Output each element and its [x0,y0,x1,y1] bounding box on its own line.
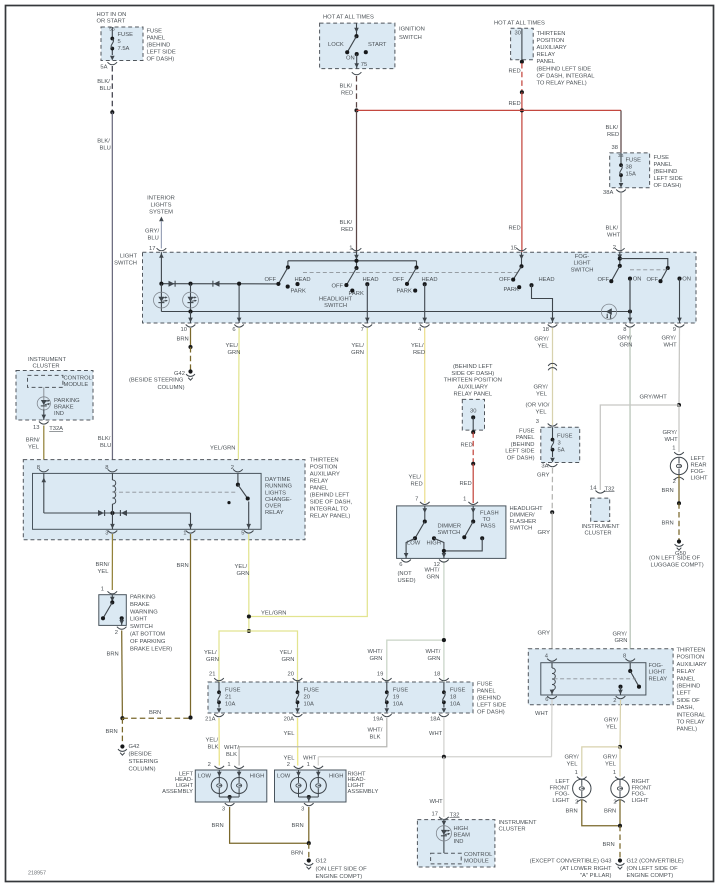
svg-text:PARK: PARK [397,288,412,294]
svg-text:YEL: YEL [284,756,296,762]
svg-text:RED: RED [413,350,425,356]
svg-text:WHT/: WHT/ [368,728,383,734]
svg-text:OFF: OFF [598,277,610,283]
svg-text:HEAD: HEAD [295,277,311,283]
svg-text:GRN: GRN [282,657,295,663]
svg-text:LOW: LOW [198,774,212,780]
svg-text:ON: ON [633,276,642,282]
svg-text:8: 8 [37,465,40,471]
svg-text:WHT: WHT [429,731,443,737]
svg-text:T32A: T32A [49,426,63,432]
svg-text:30: 30 [515,31,521,37]
svg-text:GRY/: GRY/ [534,385,548,391]
svg-text:(AT LOWER RIGHT: (AT LOWER RIGHT [560,866,612,872]
svg-text:BLK/: BLK/ [340,83,353,89]
svg-text:BRAKE: BRAKE [54,404,74,410]
svg-text:21: 21 [209,672,215,678]
svg-text:SWITCH: SWITCH [130,624,153,630]
svg-text:18: 18 [434,672,440,678]
svg-text:BLK/: BLK/ [606,226,619,232]
svg-text:GRY/: GRY/ [603,755,617,761]
svg-text:8: 8 [105,465,108,471]
svg-text:HOT AT ALL TIMES: HOT AT ALL TIMES [494,21,545,27]
svg-text:PANEL): PANEL) [677,727,698,733]
svg-text:GRY/: GRY/ [618,336,632,342]
svg-text:DAYTIME: DAYTIME [265,477,290,483]
svg-text:(BESIDE: (BESIDE [129,752,152,758]
svg-text:6: 6 [232,327,235,333]
svg-text:LEFT SIDE: LEFT SIDE [654,176,683,182]
svg-text:FOG-: FOG- [649,663,664,669]
svg-text:TO RELAY: TO RELAY [677,720,705,726]
svg-text:THIRTEEN: THIRTEEN [537,31,566,37]
svg-text:INTEGRAL TO: INTEGRAL TO [310,507,349,513]
svg-text:19: 19 [377,672,383,678]
svg-text:WHT: WHT [664,343,678,349]
svg-text:SWITCH: SWITCH [399,35,422,41]
svg-text:38: 38 [626,165,632,171]
svg-text:RED: RED [509,101,521,107]
svg-text:(BEHIND: (BEHIND [677,684,701,690]
svg-text:21A: 21A [205,717,215,723]
svg-text:17: 17 [149,246,155,252]
svg-text:INTERIOR: INTERIOR [147,196,175,202]
svg-text:THIRTEEN: THIRTEEN [310,458,339,464]
svg-text:LIGHT: LIGHT [649,670,667,676]
svg-text:LEFT: LEFT [691,456,706,462]
svg-text:15: 15 [511,246,517,252]
svg-text:HEAD: HEAD [539,277,555,283]
svg-text:WHT/: WHT/ [224,745,239,751]
svg-text:5A: 5A [100,64,107,70]
svg-text:RED: RED [461,443,473,449]
svg-text:GRN: GRN [370,656,383,662]
svg-text:BRN/: BRN/ [96,562,110,568]
svg-text:BRN: BRN [662,521,674,527]
svg-text:1: 1 [613,770,616,776]
svg-text:FUSE: FUSE [626,158,642,164]
svg-text:5A: 5A [558,448,565,454]
svg-text:LIGHT: LIGHT [691,476,709,482]
svg-text:BRAKE LEVER): BRAKE LEVER) [130,646,172,652]
svg-text:1: 1 [183,531,186,537]
svg-text:IND: IND [54,411,64,417]
svg-text:SWITCH: SWITCH [324,303,347,309]
svg-text:PARKING: PARKING [130,595,156,601]
svg-text:PANEL: PANEL [477,689,496,695]
svg-text:BLU: BLU [100,145,111,151]
svg-text:LEFT: LEFT [555,779,570,785]
svg-text:POSITION: POSITION [537,38,565,44]
svg-text:LEFT SIDE: LEFT SIDE [505,449,534,455]
svg-text:ASSEMBLY: ASSEMBLY [162,789,193,795]
svg-text:(AT BOTTOM: (AT BOTTOM [130,632,165,638]
svg-text:2: 2 [673,479,676,485]
svg-text:YEL/: YEL/ [226,343,239,349]
svg-text:BRN: BRN [291,850,303,856]
svg-text:3: 3 [222,807,225,813]
svg-text:6: 6 [545,697,548,703]
svg-text:(EXCEPT CONVERTIBLE) G43: (EXCEPT CONVERTIBLE) G43 [530,859,612,865]
svg-text:3: 3 [558,441,561,447]
svg-text:PANEL: PANEL [310,486,329,492]
svg-text:FUSE: FUSE [519,429,535,435]
svg-text:(BEHIND: (BEHIND [147,43,171,49]
svg-text:HOT AT ALL TIMES: HOT AT ALL TIMES [323,15,374,21]
svg-text:TO: TO [483,517,491,523]
svg-text:BLK/: BLK/ [340,220,353,226]
svg-text:WHT/: WHT/ [425,568,440,574]
svg-text:BLK: BLK [370,735,381,741]
svg-text:BLK/: BLK/ [606,125,619,131]
svg-text:YEL/: YEL/ [206,738,219,744]
svg-text:GRY/: GRY/ [565,755,579,761]
svg-text:RELAY: RELAY [537,52,556,58]
svg-text:13: 13 [33,425,39,431]
svg-text:WHT: WHT [665,437,679,443]
svg-text:BLK/: BLK/ [97,79,110,85]
svg-text:3: 3 [536,419,539,425]
svg-text:FUSE: FUSE [557,434,573,440]
svg-text:BRN: BRN [177,563,189,569]
svg-text:12: 12 [434,562,440,568]
svg-text:BRN: BRN [603,842,615,848]
svg-text:OF DASH, INTEGRAL: OF DASH, INTEGRAL [537,74,596,80]
svg-text:OFF: OFF [265,277,277,283]
svg-text:GRY/: GRY/ [145,228,159,234]
svg-text:FRONT: FRONT [632,785,652,791]
svg-text:START: START [368,42,387,48]
svg-text:7.5A: 7.5A [118,46,130,52]
svg-text:HIGH: HIGH [329,774,344,780]
svg-text:OFF: OFF [647,277,659,283]
svg-text:YEL: YEL [567,762,579,768]
svg-text:INSTRUMENT: INSTRUMENT [582,524,620,530]
svg-text:FUSE: FUSE [654,155,670,161]
svg-text:TO RELAY PANEL): TO RELAY PANEL) [537,81,587,87]
svg-text:CLUSTER: CLUSTER [32,364,59,370]
svg-text:20A: 20A [284,717,294,723]
svg-text:30: 30 [470,409,476,415]
svg-text:BRN: BRN [149,710,161,716]
svg-text:(BEHIND: (BEHIND [654,169,678,175]
svg-text:DIMMER: DIMMER [438,523,462,529]
svg-text:10A: 10A [304,702,314,708]
svg-text:CONTROL: CONTROL [464,852,493,858]
svg-text:LIGHTS: LIGHTS [151,203,172,209]
svg-text:GRY: GRY [538,631,551,637]
svg-text:8: 8 [623,654,626,660]
svg-text:BEAM: BEAM [454,832,471,838]
svg-text:21: 21 [225,695,231,701]
svg-text:5: 5 [241,531,244,537]
svg-text:(BESIDE STEERING: (BESIDE STEERING [129,378,184,384]
svg-text:YEL/: YEL/ [411,343,424,349]
svg-text:20: 20 [288,672,294,678]
svg-text:PANEL: PANEL [537,59,556,65]
svg-text:2: 2 [613,698,616,704]
svg-text:20: 20 [304,695,310,701]
svg-text:18: 18 [450,695,456,701]
svg-text:PANEL: PANEL [654,162,673,168]
svg-text:1: 1 [463,497,466,503]
svg-text:BLU: BLU [100,86,111,92]
svg-text:SWITCH: SWITCH [114,260,137,266]
svg-text:HIGH: HIGH [250,774,265,780]
svg-text:POSITION: POSITION [677,655,705,661]
svg-text:FUSE: FUSE [477,682,493,688]
svg-text:GRN: GRN [620,343,633,349]
svg-text:HEAD: HEAD [363,277,379,283]
svg-text:PARKING: PARKING [54,398,80,404]
svg-text:WHT/: WHT/ [368,649,383,655]
svg-text:LIGHT: LIGHT [130,617,148,623]
svg-text:YEL: YEL [536,410,548,416]
svg-text:BLK/: BLK/ [97,138,110,144]
svg-text:BRN: BRN [106,729,118,735]
svg-text:BRN: BRN [212,823,224,829]
svg-text:(ON LEFT SIDE OF: (ON LEFT SIDE OF [627,866,679,872]
svg-text:FOG-: FOG- [632,792,647,798]
svg-text:CONTROL: CONTROL [64,376,93,382]
svg-text:FOG-: FOG- [691,469,706,475]
svg-text:BLU: BLU [148,235,159,241]
svg-text:RELAY: RELAY [310,479,329,485]
svg-text:SYSTEM: SYSTEM [149,210,173,216]
svg-text:SWITCH: SWITCH [571,267,594,273]
svg-text:YEL: YEL [605,762,617,768]
svg-text:BRN: BRN [292,823,304,829]
svg-text:GRY/: GRY/ [662,336,676,342]
svg-text:RED: RED [607,132,619,138]
svg-text:3A: 3A [541,464,548,470]
svg-text:218957: 218957 [28,871,46,877]
svg-text:(ON LEFT SIDE OF: (ON LEFT SIDE OF [649,555,701,561]
svg-text:GRY/: GRY/ [604,718,618,724]
svg-text:LEFT SIDE: LEFT SIDE [147,50,176,56]
svg-text:YEL/GRN: YEL/GRN [210,445,235,451]
svg-text:1: 1 [227,762,230,768]
svg-text:ASSEMBLY: ASSEMBLY [348,789,379,795]
svg-text:9: 9 [673,327,676,333]
svg-text:2: 2 [613,245,616,251]
svg-text:CLUSTER: CLUSTER [499,827,526,833]
svg-text:GRY/WHT: GRY/WHT [640,395,668,401]
svg-text:AUXILIARY: AUXILIARY [310,472,340,478]
svg-text:DASH,: DASH, [677,705,695,711]
svg-text:GRN: GRN [237,571,250,577]
svg-text:OFF: OFF [332,284,344,290]
svg-text:10A: 10A [225,702,235,708]
svg-text:BRN: BRN [662,488,674,494]
svg-text:FUSE: FUSE [225,688,241,694]
svg-text:RIGHT: RIGHT [632,779,650,785]
svg-text:CHANGE-: CHANGE- [265,497,292,503]
svg-text:REAR: REAR [691,463,707,469]
svg-text:WHT: WHT [430,799,444,805]
svg-text:PANEL: PANEL [147,36,166,42]
svg-text:LIGHT: LIGHT [120,254,138,260]
svg-text:G12: G12 [316,859,327,865]
svg-text:1: 1 [575,770,578,776]
svg-text:LOW: LOW [277,774,291,780]
svg-text:OFF: OFF [393,277,405,283]
svg-text:LIGHT: LIGHT [552,798,570,804]
svg-text:PASS: PASS [481,524,496,530]
svg-text:10: 10 [181,327,187,333]
svg-text:USED): USED) [398,578,416,584]
svg-text:SIDE OF DASH,: SIDE OF DASH, [310,500,353,506]
svg-text:RED: RED [411,482,423,488]
svg-text:FRONT: FRONT [550,785,570,791]
svg-text:(BEHIND LEFT: (BEHIND LEFT [310,493,350,499]
svg-text:75: 75 [361,62,367,68]
svg-text:RED: RED [509,69,521,75]
svg-text:18: 18 [543,327,549,333]
svg-text:19: 19 [393,695,399,701]
svg-text:FLASH: FLASH [480,510,499,516]
svg-text:(ON LEFT SIDE OF: (ON LEFT SIDE OF [316,867,368,873]
svg-text:OF DASH): OF DASH) [147,57,175,63]
svg-text:3: 3 [301,807,304,813]
svg-text:SIDE OF DASH): SIDE OF DASH) [451,371,494,377]
svg-text:COLUMN): COLUMN) [158,385,185,391]
svg-text:SIDE OF: SIDE OF [677,698,701,704]
svg-text:GRN: GRN [206,657,219,663]
svg-text:WHT/: WHT/ [426,649,441,655]
svg-text:OF DASH): OF DASH) [477,710,505,716]
svg-text:1: 1 [672,446,675,452]
svg-text:RED: RED [341,227,353,233]
svg-text:BLU: BLU [100,443,111,449]
svg-text:RELAY PANEL: RELAY PANEL [453,391,492,397]
svg-text:HIGH: HIGH [454,826,469,832]
svg-text:GRY: GRY [538,530,551,536]
svg-text:WHT: WHT [303,756,317,762]
svg-text:18A: 18A [430,717,440,723]
svg-text:2: 2 [613,799,616,805]
svg-text:ENGINE COMPT): ENGINE COMPT) [627,873,674,879]
svg-text:YEL/: YEL/ [204,650,217,656]
svg-text:FUSE: FUSE [450,688,466,694]
svg-text:10A: 10A [450,702,460,708]
svg-text:PANEL: PANEL [516,435,535,441]
svg-text:DIMMER/: DIMMER/ [510,513,536,519]
svg-text:1: 1 [101,587,104,593]
svg-text:38: 38 [612,145,618,151]
svg-text:POSITION: POSITION [310,465,338,471]
svg-text:1: 1 [307,762,310,768]
svg-text:(NOT: (NOT [398,571,413,577]
svg-text:FUSE: FUSE [147,29,163,35]
svg-text:2: 2 [287,762,290,768]
svg-text:FUSE: FUSE [118,32,134,38]
svg-text:RED: RED [509,226,521,232]
svg-text:OR START: OR START [97,19,126,25]
svg-text:FOG-: FOG- [575,254,590,260]
svg-text:G42: G42 [174,371,185,377]
svg-text:OFF: OFF [499,277,511,283]
svg-text:LUGGAGE COMPT): LUGGAGE COMPT) [651,563,704,569]
svg-text:FUSE: FUSE [304,688,320,694]
svg-text:PARK: PARK [291,288,306,294]
svg-text:BRAKE: BRAKE [130,602,150,608]
svg-text:COLUMN): COLUMN) [129,767,156,773]
svg-text:GRY/: GRY/ [663,430,677,436]
svg-text:IGNITION: IGNITION [399,27,425,33]
svg-text:3: 3 [105,531,108,537]
svg-text:BRN: BRN [177,337,189,343]
svg-text:THIRTEEN: THIRTEEN [677,648,706,654]
svg-text:(BEHIND: (BEHIND [511,442,535,448]
svg-text:38A: 38A [603,190,613,196]
svg-text:YEL: YEL [284,731,296,737]
svg-text:WHT: WHT [607,233,621,239]
svg-text:HEAD: HEAD [422,277,438,283]
svg-text:INSTRUMENT: INSTRUMENT [499,820,537,826]
svg-text:YEL: YEL [538,343,550,349]
svg-text:T32: T32 [450,812,460,818]
svg-text:15A: 15A [626,172,636,178]
svg-text:FUSE: FUSE [393,688,409,694]
svg-text:INTEGRAL: INTEGRAL [677,712,707,718]
svg-text:5: 5 [118,39,121,45]
svg-text:19A: 19A [373,717,383,723]
svg-text:HIGH: HIGH [427,540,442,546]
svg-text:"A" PILLAR): "A" PILLAR) [580,873,612,879]
svg-text:RELAY PANEL): RELAY PANEL) [310,514,351,520]
svg-text:RED: RED [460,481,472,487]
svg-text:INSTRUMENT: INSTRUMENT [28,357,66,363]
svg-text:HEADLIGHT: HEADLIGHT [510,506,544,512]
svg-text:BLK: BLK [226,752,237,758]
svg-text:2: 2 [115,630,118,636]
svg-text:BRN: BRN [566,809,578,815]
svg-text:GRN: GRN [615,638,628,644]
svg-text:OF PARKING: OF PARKING [130,639,166,645]
svg-text:OVER: OVER [265,504,281,510]
svg-text:G12 (CONVERTIBLE): G12 (CONVERTIBLE) [627,859,684,865]
svg-text:HEADLIGHT: HEADLIGHT [319,296,353,302]
svg-text:IND: IND [454,839,464,845]
svg-text:GRY: GRY [537,472,550,478]
svg-text:RUNNING: RUNNING [265,484,293,490]
svg-text:MODULE: MODULE [464,859,489,865]
svg-text:AUXILIARY: AUXILIARY [537,45,567,51]
svg-text:SWITCH: SWITCH [438,530,461,536]
svg-text:WHT: WHT [535,711,549,717]
svg-text:YEL: YEL [28,445,40,451]
svg-text:LEFT: LEFT [677,691,692,697]
svg-text:RELAY: RELAY [677,669,696,675]
svg-text:6: 6 [399,562,402,568]
svg-text:BLK/: BLK/ [98,436,111,442]
svg-text:LEFT SIDE: LEFT SIDE [477,703,506,709]
svg-text:17: 17 [432,812,438,818]
svg-text:(BEHIND: (BEHIND [477,696,501,702]
svg-text:PARK: PARK [504,287,519,293]
svg-text:OF DASH): OF DASH) [507,455,535,461]
svg-text:YEL/: YEL/ [280,650,293,656]
svg-text:YEL/: YEL/ [409,475,422,481]
svg-text:YEL: YEL [98,569,110,575]
svg-text:RELAY: RELAY [649,676,668,682]
svg-text:ON: ON [346,56,355,62]
svg-text:2: 2 [575,799,578,805]
svg-text:BRN: BRN [107,651,119,657]
svg-text:LIGHTS: LIGHTS [265,490,286,496]
svg-text:RED: RED [341,90,353,96]
